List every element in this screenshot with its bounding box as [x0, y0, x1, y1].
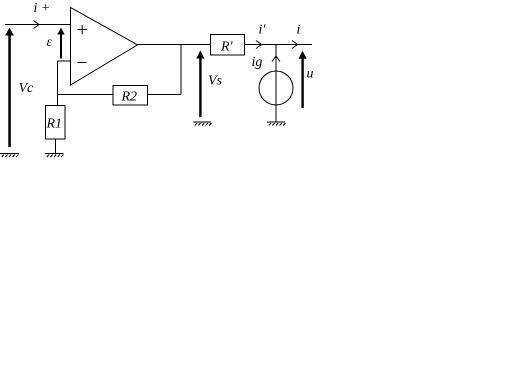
arrow Vc (thick up arrow): [5, 28, 14, 148]
ground under Vc: [0, 154, 19, 158]
svg-text:i +: i +: [34, 1, 51, 16]
wire: op-amp output to R': [138, 44, 211, 46]
resistor R' box: [211, 35, 245, 56]
current arrow i' chevron: [256, 41, 262, 49]
ground under Vs: [193, 122, 211, 126]
wire: output branch vertical: [180, 45, 182, 95]
arrow epsilon (thick up arrow): [57, 28, 64, 59]
op-amp U1 triangle: [71, 8, 138, 86]
ground under R1: [45, 154, 64, 158]
wire: node to right edge: [276, 44, 312, 46]
ground under current source: [267, 122, 285, 126]
arrow u (thick up arrow): [299, 51, 307, 108]
svg-text:i: i: [297, 23, 301, 38]
wire: node vertical through current source to ground: [275, 45, 277, 123]
svg-text:R2: R2: [121, 90, 138, 105]
svg-text:Vc: Vc: [19, 81, 35, 96]
current source circle: [259, 71, 293, 105]
wire: inverting node vertical to R1: [57, 61, 59, 106]
op-amp + input marking: [78, 25, 88, 35]
op-amp - input marking: [78, 62, 87, 64]
svg-text:R1: R1: [46, 117, 63, 132]
wire: R1 bottom to ground: [55, 139, 57, 153]
wire: R2 right to output branch: [148, 94, 182, 96]
svg-text:u: u: [307, 67, 314, 82]
svg-text:ε: ε: [47, 35, 53, 50]
current arrow i+ chevron on top wire: [34, 21, 40, 29]
current arrow ig chevron up: [272, 56, 280, 62]
wire: R' right to node: [245, 44, 277, 46]
svg-text:ig: ig: [252, 55, 263, 70]
wire: feedback wire to R2 left: [58, 94, 114, 96]
svg-text:R': R': [220, 40, 234, 55]
current arrow i chevron: [292, 41, 298, 49]
wire: inverting input stub: [58, 60, 71, 62]
resistor R2 box: [113, 86, 148, 106]
svg-text:Vs: Vs: [208, 74, 223, 89]
resistor R1 box: [46, 106, 66, 140]
arrow Vs (thick up arrow): [196, 51, 204, 118]
wire: top wire from source to op-amp + input: [5, 24, 71, 26]
svg-text:i': i': [259, 23, 267, 38]
